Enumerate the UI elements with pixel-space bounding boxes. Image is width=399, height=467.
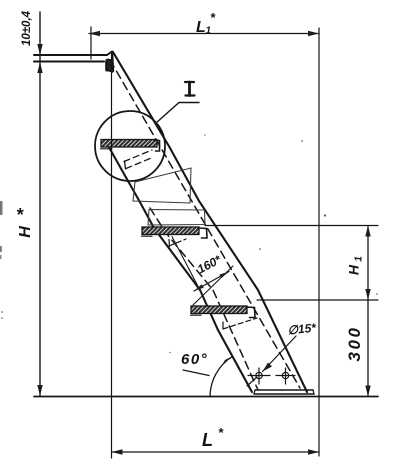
svg-text:1: 1 (354, 256, 365, 262)
svg-text:*: * (210, 10, 216, 25)
svg-text:300: 300 (345, 326, 364, 362)
svg-text:1: 1 (206, 26, 212, 37)
svg-text:H: H (17, 226, 34, 238)
svg-text:L: L (202, 430, 213, 450)
svg-text:*: * (218, 425, 224, 440)
svg-text:160*: 160* (195, 252, 225, 277)
svg-text:10±0,4: 10±0,4 (21, 10, 33, 46)
svg-text:60°: 60° (181, 351, 208, 368)
svg-text:∅15*: ∅15* (287, 320, 318, 337)
svg-text:*: * (16, 205, 24, 225)
svg-text:H: H (346, 264, 362, 275)
svg-text:L: L (196, 19, 206, 36)
